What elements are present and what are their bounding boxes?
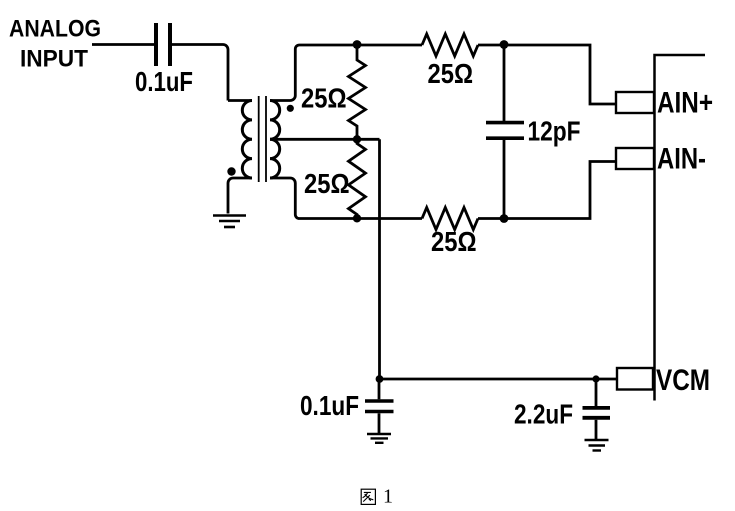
node junction VCM C4: [592, 375, 599, 382]
ground under transformer: [213, 216, 246, 228]
node junction top-left: [353, 40, 362, 49]
ADC block edge: [655, 55, 706, 401]
wire secondary top to top rail: [270, 45, 422, 101]
svg-text:12pF: 12pF: [528, 115, 581, 146]
capacitor C1 0.1uF plates: [156, 23, 170, 66]
wire center tap to VCM rail: [270, 139, 380, 379]
node junction bottom-left: [353, 214, 361, 222]
svg-text:0.1uF: 0.1uF: [300, 390, 359, 421]
capacitor C2 12pF: [503, 45, 506, 121]
wire input: [92, 43, 154, 46]
resistor R4 25ohm horizontal bottom: [422, 208, 478, 230]
transformer secondary winding: [270, 101, 280, 179]
pin box AIN-: [616, 148, 654, 169]
svg-text:AIN-: AIN-: [657, 143, 706, 176]
caption figure 1 (tu) glyph: [361, 489, 375, 504]
pin box AIN+: [616, 92, 654, 113]
wire top rail right: [478, 45, 616, 104]
svg-text:VCM: VCM: [656, 364, 710, 397]
wire secondary bottom to bottom rail: [270, 178, 422, 219]
transformer core: [259, 96, 266, 182]
svg-text:25Ω: 25Ω: [431, 226, 477, 257]
ground under C3: [367, 434, 391, 443]
svg-text:1: 1: [383, 486, 393, 508]
resistor R1 25ohm vertical upper: [349, 45, 366, 139]
resistor R3 25ohm horizontal top: [422, 34, 478, 56]
capacitor C4 2.2uF: [595, 379, 598, 406]
wire bottom rail right to AIN-: [478, 162, 616, 219]
resistor R2 25ohm vertical lower: [349, 139, 366, 218]
svg-text:25Ω: 25Ω: [428, 58, 474, 89]
svg-text:25Ω: 25Ω: [301, 83, 347, 114]
pin box VCM: [617, 368, 653, 390]
svg-text:0.1uF: 0.1uF: [135, 66, 193, 97]
svg-text:AIN+: AIN+: [657, 87, 713, 120]
wire C1 to transformer primary: [172, 45, 228, 101]
transformer primary phase dot: [227, 167, 235, 175]
node junction VCM C3: [376, 375, 384, 383]
svg-text:INPUT: INPUT: [20, 46, 88, 73]
svg-text:ANALOG: ANALOG: [9, 16, 101, 43]
wire primary bottom to ground: [228, 178, 252, 214]
svg-text:25Ω: 25Ω: [304, 168, 350, 199]
svg-text:2.2uF: 2.2uF: [514, 399, 573, 430]
wire VCM rail: [380, 378, 618, 381]
transformer secondary phase dot: [287, 105, 294, 112]
node junction top-right: [500, 40, 509, 49]
transformer primary winding: [228, 99, 252, 102]
capacitor C3 0.1uF bottom: [378, 379, 381, 399]
node junction mid tap: [353, 135, 361, 143]
label ANALOG INPUT: [9, 16, 101, 73]
ground under C4: [585, 440, 609, 451]
node junction bottom-right: [500, 214, 509, 223]
